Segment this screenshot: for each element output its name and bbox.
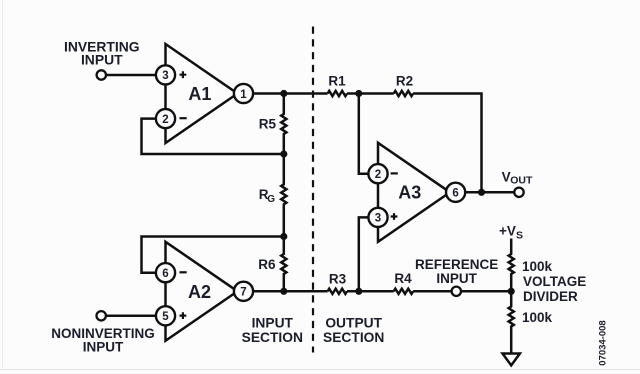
wire: noninverting input terminal to A2 pin 5 — [106, 315, 156, 318]
resistor 100k lower — [509, 291, 514, 353]
svg-text:6: 6 — [162, 268, 168, 280]
pin 6 (-) of A2 — [156, 263, 187, 282]
label REFERENCE INPUT — [415, 257, 498, 286]
wire: R2 to A3 output node — [413, 94, 481, 193]
svg-text:R2: R2 — [396, 74, 413, 89]
wire: A1 output to R1 — [253, 92, 327, 95]
svg-text:2: 2 — [375, 169, 381, 181]
svg-text:3: 3 — [162, 70, 168, 82]
label +VS — [499, 223, 523, 241]
junction: R3 / R4 / A3 pin 3 — [355, 288, 362, 295]
op-amp A1 — [166, 44, 238, 143]
svg-text:OUTPUT: OUTPUT — [325, 315, 382, 330]
wire: R3/R4 junction up to A3 pin 3 — [359, 217, 368, 291]
svg-text:R1: R1 — [328, 74, 346, 89]
label VOLTAGE DIVIDER — [523, 274, 586, 304]
op-amp A3 — [378, 143, 450, 242]
svg-text:SECTION: SECTION — [242, 330, 303, 345]
svg-text:R5: R5 — [259, 116, 277, 131]
ground — [503, 354, 520, 366]
svg-text:INPUT: INPUT — [436, 271, 477, 286]
label VOUT — [502, 170, 533, 187]
svg-text:OUT: OUT — [510, 175, 533, 187]
junction: A3 output / R2 feedback — [478, 189, 485, 196]
junction: voltage divider / reference row — [508, 288, 515, 295]
pin 3 (+) of A3 — [368, 208, 397, 227]
svg-text:INPUT: INPUT — [252, 315, 294, 330]
wire: R1/R2 junction down to A3 pin 2 — [359, 94, 368, 174]
wire: reference terminal to voltage divider — [461, 290, 511, 293]
op-amp A2 — [166, 242, 238, 341]
wire: A2 output to R3 — [253, 290, 327, 293]
label INPUT SECTION — [242, 315, 303, 345]
svg-text:5: 5 — [162, 311, 169, 323]
svg-text:1: 1 — [240, 89, 247, 101]
svg-text:A1: A1 — [188, 84, 211, 104]
wire: R4 to reference terminal — [413, 290, 452, 293]
svg-text:INPUT: INPUT — [81, 51, 123, 67]
wire: R1 to R2 — [347, 92, 394, 95]
pin 2 (-) of A3 — [368, 164, 397, 183]
wire: inverting input terminal to A1 pin 3 — [106, 74, 156, 77]
wire: A1 feedback from pin 2 to R5/RG junction — [142, 119, 284, 154]
resistor R4 — [394, 289, 413, 294]
svg-text:REFERENCE: REFERENCE — [415, 257, 498, 272]
resistor R1 — [328, 91, 347, 96]
svg-text:100k: 100k — [522, 310, 553, 325]
terminal: inverting input — [97, 70, 106, 79]
wire: R3 to R4 — [347, 290, 394, 293]
resistor R5 — [281, 94, 286, 155]
junction: RG / R6 / A2 feedback — [280, 233, 287, 240]
pin 2 (-) of A1 — [156, 109, 187, 128]
junction: A1 output / R5 top — [280, 90, 287, 97]
svg-text:07034-008: 07034-008 — [598, 320, 609, 365]
svg-text:VOLTAGE: VOLTAGE — [523, 274, 586, 289]
pin 6 output of A3 — [446, 183, 465, 202]
resistor 100k upper — [509, 239, 514, 292]
pin 7 output of A2 — [234, 282, 253, 301]
svg-text:R3: R3 — [329, 271, 347, 286]
pin 3 (+) of A1 — [156, 65, 186, 84]
svg-text:A2: A2 — [188, 282, 211, 302]
svg-text:100k: 100k — [522, 259, 553, 274]
svg-text:+V: +V — [499, 223, 516, 238]
dashed section divider — [312, 27, 314, 353]
svg-text:6: 6 — [452, 188, 458, 200]
terminal: noninverting input — [97, 311, 106, 320]
label NONINVERTING INPUT — [51, 326, 155, 354]
resistor RG — [281, 154, 286, 237]
wire: A2 feedback from pin 6 to RG/R6 junction — [142, 237, 284, 273]
junction: R1 / R2 / A3 pin 2 — [355, 90, 362, 97]
resistor R3 — [328, 289, 347, 294]
svg-text:S: S — [516, 229, 523, 241]
bottom edge line — [0, 369, 640, 370]
resistor R6 — [281, 237, 286, 292]
junction: R5 / RG / A1 feedback — [280, 150, 287, 157]
svg-text:R4: R4 — [394, 271, 412, 286]
svg-text:7: 7 — [240, 287, 246, 299]
label RG — [259, 187, 275, 205]
label INVERTING INPUT — [64, 38, 140, 67]
svg-text:INPUT: INPUT — [83, 340, 124, 355]
terminal: VOUT — [514, 188, 523, 197]
svg-text:2: 2 — [162, 114, 168, 126]
wire: A3 output to VOUT terminal — [465, 191, 514, 194]
resistor R2 — [394, 91, 413, 96]
label OUTPUT SECTION — [323, 315, 384, 345]
svg-text:3: 3 — [375, 213, 381, 225]
svg-text:DIVIDER: DIVIDER — [523, 289, 578, 304]
pin 1 output of A1 — [234, 84, 253, 103]
svg-text:A3: A3 — [398, 183, 421, 203]
svg-text:G: G — [267, 194, 275, 205]
svg-text:SECTION: SECTION — [323, 330, 384, 345]
terminal: reference input — [452, 287, 461, 296]
svg-text:R6: R6 — [258, 257, 276, 272]
junction: R6 / A2 output row — [280, 288, 287, 295]
pin 5 (+) of A2 — [156, 306, 186, 325]
